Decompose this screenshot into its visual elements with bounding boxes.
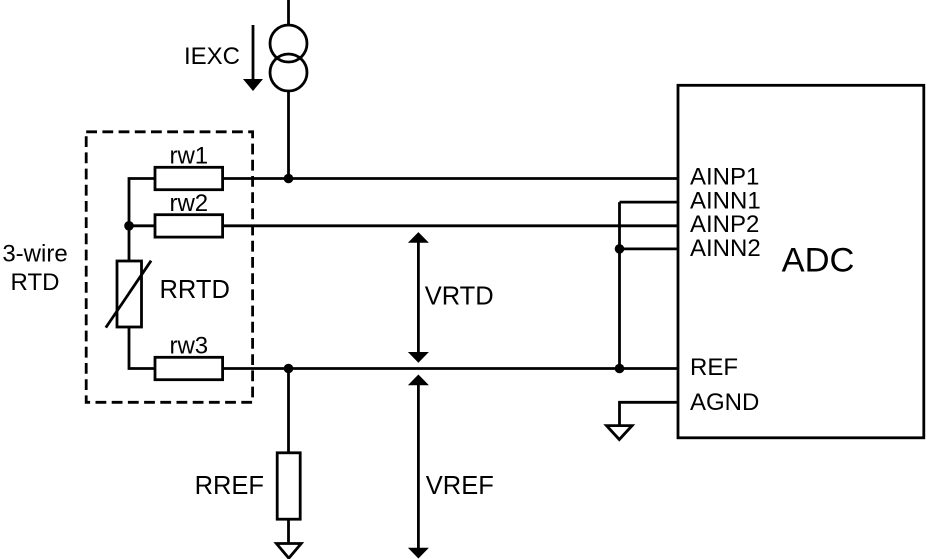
svg-text:IEXC: IEXC (184, 43, 240, 70)
svg-text:rw2: rw2 (169, 190, 208, 217)
svg-text:rw1: rw1 (169, 143, 208, 170)
svg-text:RRTD: RRTD (160, 276, 230, 304)
svg-text:VRTD: VRTD (425, 283, 494, 311)
svg-text:AGND: AGND (690, 389, 759, 416)
svg-text:RTD: RTD (11, 269, 60, 296)
svg-text:rw3: rw3 (169, 333, 208, 360)
svg-text:3-wire: 3-wire (2, 241, 67, 268)
svg-text:ADC: ADC (782, 242, 855, 280)
svg-text:AINN2: AINN2 (690, 235, 761, 262)
svg-text:VREF: VREF (426, 472, 494, 500)
svg-text:RREF: RREF (195, 472, 264, 500)
svg-text:REF: REF (690, 354, 738, 381)
